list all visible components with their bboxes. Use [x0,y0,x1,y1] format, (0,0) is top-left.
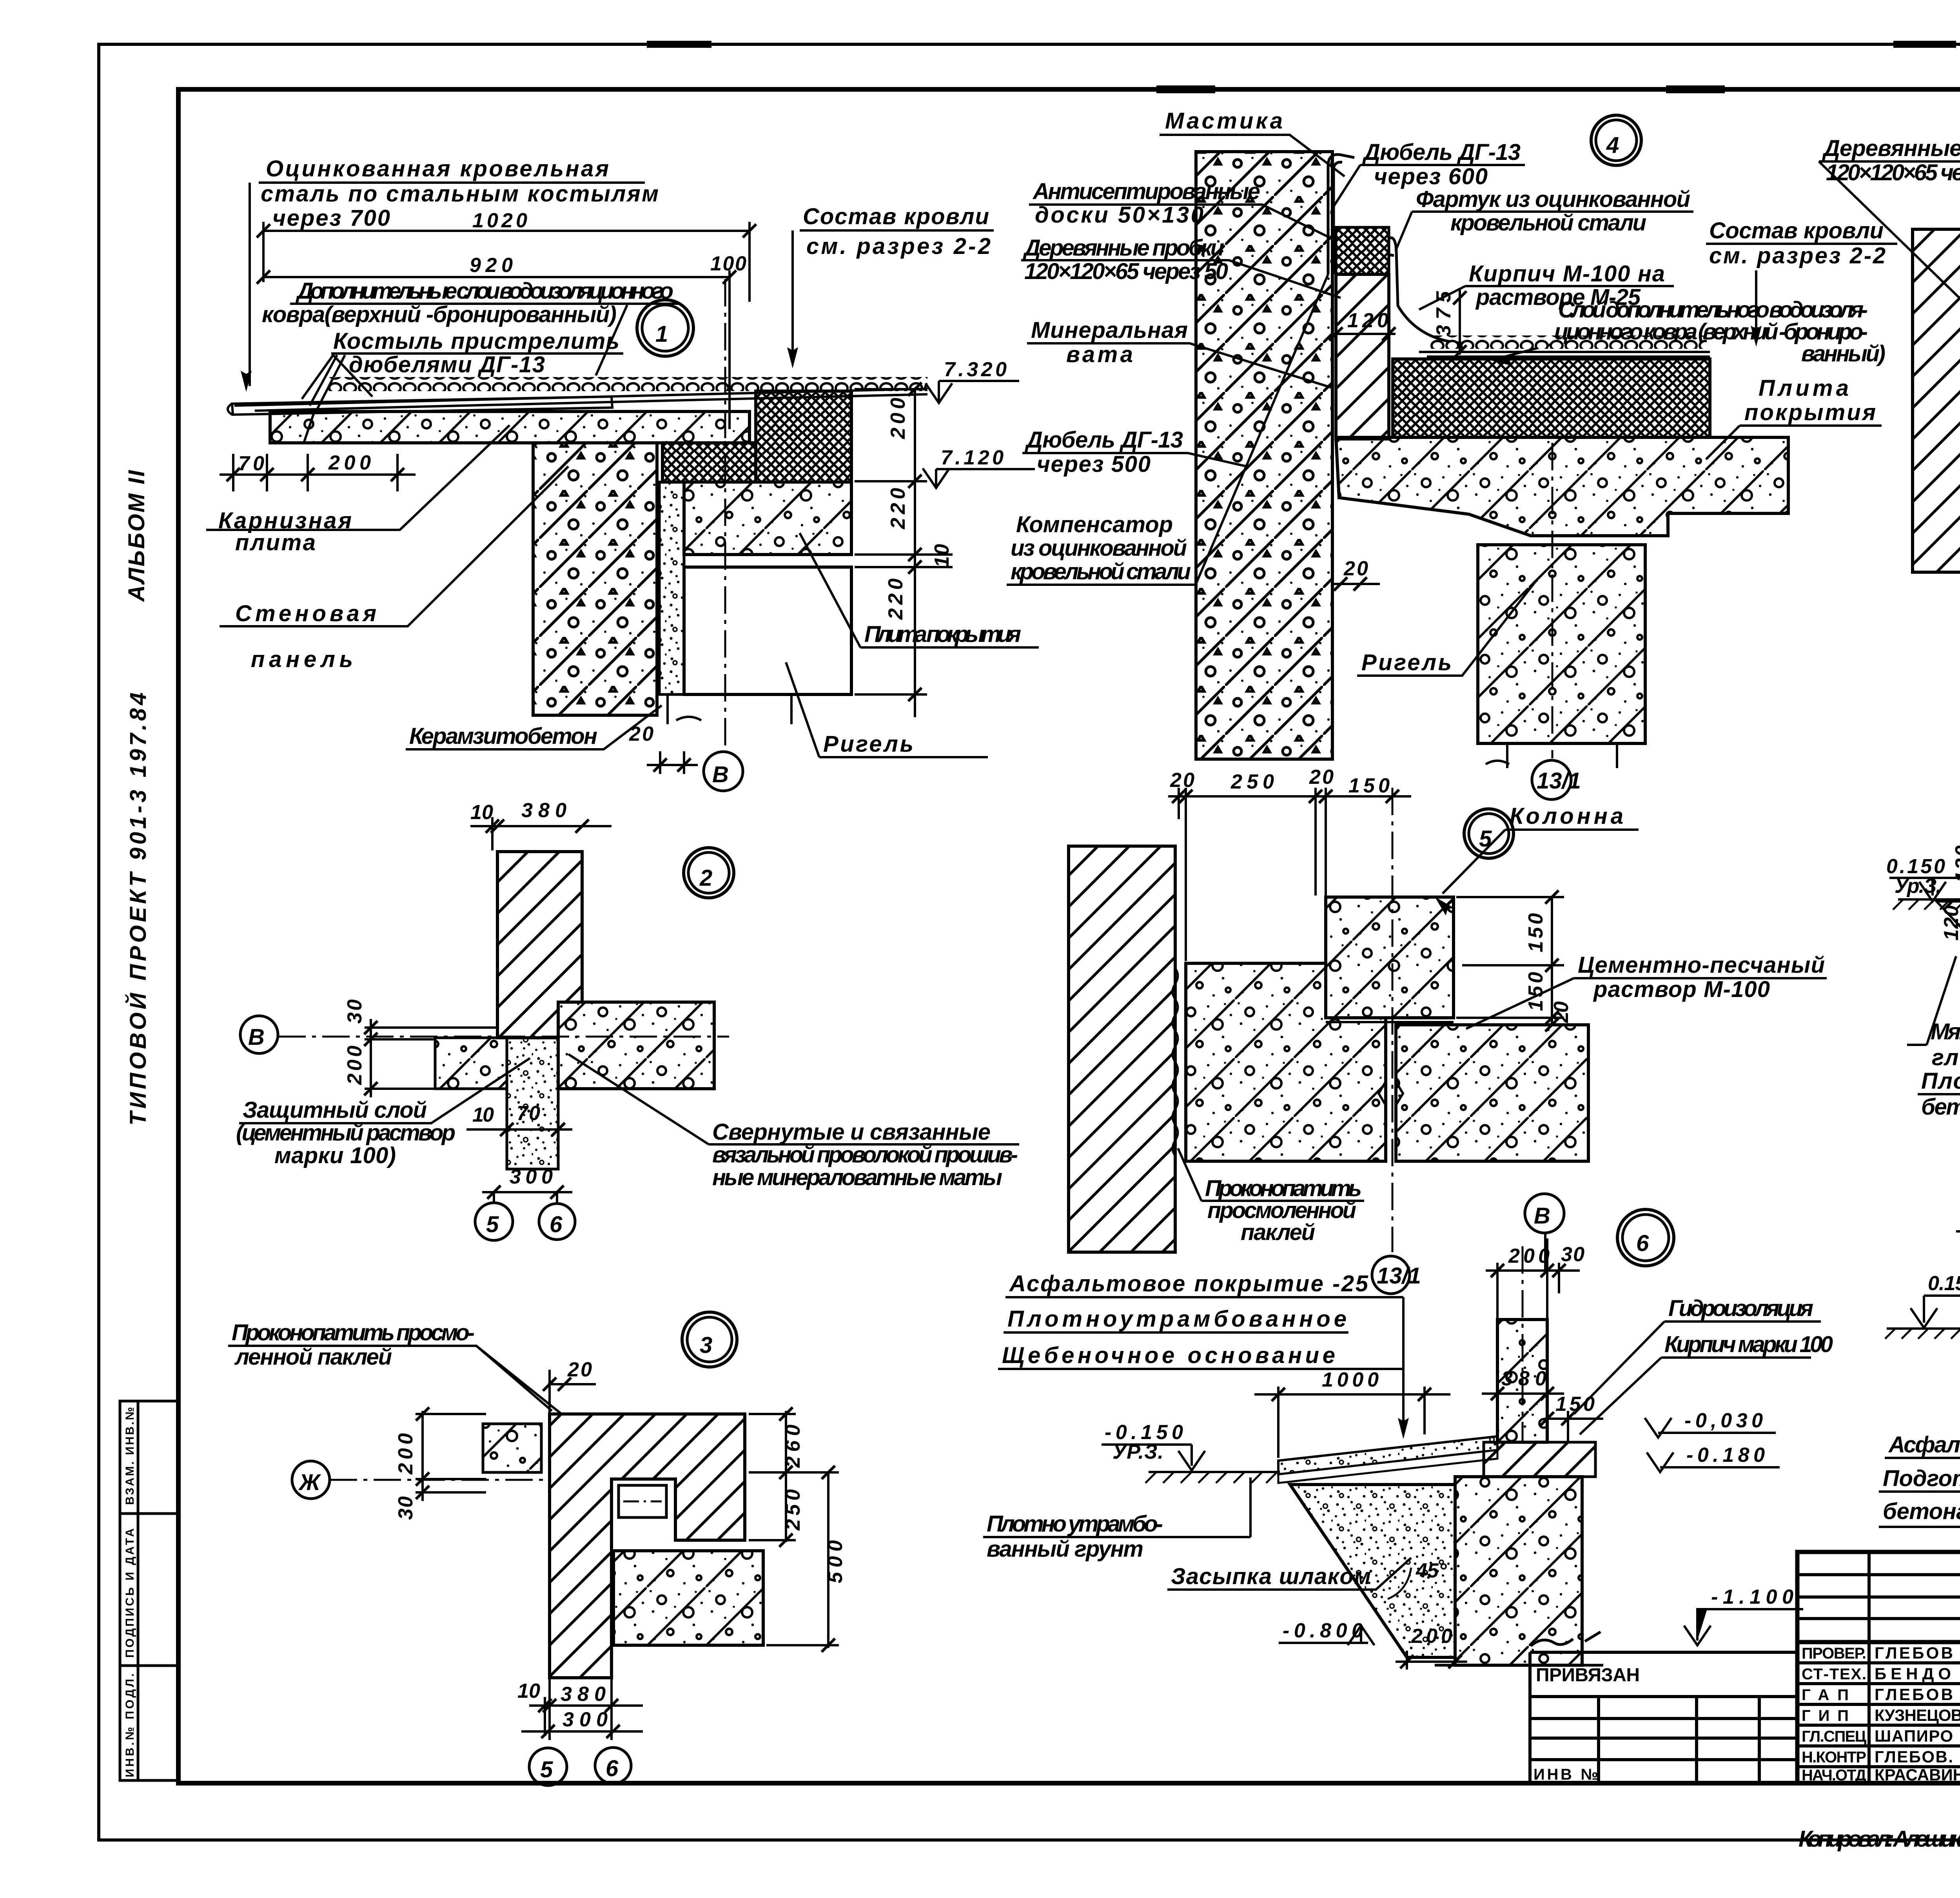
svg-text:через 700: через 700 [272,205,390,231]
detail number 2 [684,848,734,898]
svg-text:200: 200 [1411,1625,1452,1648]
svg-text:120: 120 [1940,905,1960,941]
detail number 1 [637,300,693,356]
svg-text:3: 3 [700,1332,712,1358]
wall axis d6 [1522,1246,1524,1442]
svg-text:сталь по стальным костылям: сталь по стальным костылям [261,181,659,207]
svg-text:КРАСАВИН: КРАСАВИН [1875,1766,1960,1784]
svg-text:220: 220 [887,488,909,529]
svg-text:150: 150 [1524,913,1547,952]
clay wedge [1936,901,1960,974]
title block texts [1802,1574,1960,1785]
svg-text:Плита покрытия: Плита покрытия [864,622,1021,647]
svg-text:10: 10 [472,1104,494,1126]
svg-text:Засыпка шлаком: Засыпка шлаком [1171,1564,1371,1589]
svg-text:6: 6 [550,1212,563,1237]
svg-text:Стеновая: Стеновая [235,601,376,626]
svg-text:ванный): ванный) [1801,341,1886,366]
svg-text:ГЛЕБОВ: ГЛЕБОВ [1875,1685,1953,1704]
svg-text:Костыль пристрелить: Костыль пристрелить [333,328,619,354]
detail number 3 [682,1312,737,1367]
wooden plug cross block [1336,227,1389,274]
svg-text:вязальной проволокой прошив-: вязальной проволокой прошив- [712,1142,1018,1167]
svg-text:0.150 У.З.: 0.150 У.З. [1928,1272,1960,1295]
svg-text:13/1: 13/1 [1377,1263,1421,1289]
horizontal centerline [278,1036,729,1038]
svg-text:плита: плита [235,530,316,555]
svg-text:260: 260 [782,1425,804,1468]
column axis d5 [1392,788,1394,1252]
left slab d5 [1186,963,1386,1161]
right slab d5 [1396,1025,1588,1161]
svg-text:380: 380 [1501,1367,1546,1390]
foundation trapezoid d6 [1290,1485,1455,1657]
svg-text:200: 200 [887,398,909,439]
svg-text:ТИПОВОЙ ПРОЕКТ 901-3 197.84: ТИПОВОЙ ПРОЕКТ 901-3 197.84 [125,692,151,1126]
svg-text:Компенсатор: Компенсатор [1016,512,1173,537]
rigel support legs [1486,743,1617,768]
svg-text:Колонна: Колонна [1510,803,1623,829]
axis circle 5 d3 [529,1748,567,1786]
svg-text:100: 100 [710,252,746,275]
svg-text:Состав кровли: Состав кровли [803,204,989,229]
svg-text:Ж: Ж [298,1470,321,1495]
svg-text:130: 130 [1951,845,1960,883]
brick pier d6 [1497,1320,1547,1442]
insulation cross-hatch band [662,443,756,482]
svg-text:Деревянные пробки: Деревянные пробки [1822,136,1960,161]
svg-text:из оцинкованной: из оцинкованной [1011,535,1187,561]
column d5 [1326,897,1454,1018]
support ticks under rigel [668,694,791,724]
right slab [558,1002,714,1089]
svg-text:Площадка из: Площадка из [1921,1068,1960,1094]
svg-text:Асфальт-30: Асфальт-30 [1888,1432,1960,1457]
roofing sheet lines [234,389,927,411]
left small slab [483,1424,541,1472]
roof slab plita pokrytiya [684,482,851,555]
svg-text:5: 5 [1479,826,1492,852]
gravel row [328,377,927,391]
rubble base band [1278,1450,1497,1483]
right dim column [855,389,953,717]
dim 30/200 left [365,1019,498,1097]
svg-text:ковра(верхний -бронированный): ковра(верхний -бронированный) [262,302,617,327]
pad under pier [1484,1442,1595,1477]
svg-text:раствор М-100: раствор М-100 [1593,977,1770,1002]
detail number 6 header [1617,1209,1674,1266]
svg-text:1: 1 [655,321,668,347]
svg-text:200: 200 [343,1046,366,1085]
wall panel keramzit [533,443,657,715]
svg-text:ГАП: ГАП [1802,1686,1849,1704]
svg-text:см. разрез 2-2: см. разрез 2-2 [1709,243,1886,268]
svg-text:НАЧ.ОТД: НАЧ.ОТД [1802,1767,1866,1784]
right dims 260 250 500 [749,1411,839,1648]
gravel row d4 [1430,335,1707,349]
svg-text:200: 200 [394,1433,417,1475]
svg-text:Плотно утрамбо-: Плотно утрамбо- [987,1511,1163,1537]
axis circle V d5 [1525,1194,1564,1233]
axis circle 13/1 [1532,760,1571,799]
dimension 70 / 200 bottom left [220,454,416,491]
roof slab polygon [1336,437,1788,536]
svg-text:200: 200 [1508,1245,1550,1267]
joint column below [507,1038,558,1169]
svg-text:5: 5 [486,1212,499,1237]
svg-text:кровельной стали: кровельной стали [1011,559,1191,584]
svg-text:вата: вата [1066,342,1133,367]
insulation cross-hatch band [1393,359,1710,437]
svg-text:СТ-ТЕХ.: СТ-ТЕХ. [1802,1666,1866,1683]
svg-text:ные минераловатные маты: ные минераловатные маты [712,1165,1002,1190]
svg-text:Керамзитобетон: Керамзитобетон [409,723,597,749]
svg-text:Асфальтовое покрытие -25: Асфальтовое покрытие -25 [1009,1271,1368,1296]
right foundation wall d6 [1455,1477,1582,1665]
brick parapet column [1336,274,1389,439]
wall panel keramzit [1196,152,1332,759]
svg-text:220: 220 [884,578,907,620]
bottom edge d6 [1435,1664,1603,1667]
svg-text:Свернутые и связанные: Свернутые и связанные [712,1119,991,1145]
svg-text:марки 100): марки 100) [274,1143,396,1168]
svg-text:В: В [1534,1203,1550,1229]
joint column [659,482,684,694]
svg-text:бетона марки 100: бетона марки 100 [1883,1499,1960,1524]
ground hachure d9 [1887,1327,1960,1330]
svg-text:Защитный слой: Защитный слой [243,1097,427,1123]
svg-text:13/1: 13/1 [1537,768,1581,794]
svg-text:500: 500 [824,1540,847,1583]
left wall d5 [1069,846,1175,1252]
svg-text:Минеральная: Минеральная [1031,317,1188,343]
svg-text:Проконопатить просмо-: Проконопатить просмо- [232,1320,475,1345]
svg-text:Мастика: Мастика [1165,108,1283,134]
axis circle 13/1 d5 [1372,1256,1410,1294]
svg-text:2: 2 [699,865,712,891]
title block [1797,1552,1960,1783]
svg-text:через 500: через 500 [1037,451,1151,477]
svg-text:АЛЬБОМ II: АЛЬБОМ II [124,470,149,602]
svg-text:через 600: через 600 [1374,164,1488,189]
concrete block d3 [613,1551,763,1645]
axis circle V [240,1016,278,1053]
svg-text:300: 300 [510,1166,553,1188]
axis circle 5 d2 [475,1203,513,1240]
svg-text:ПРИВЯЗАН: ПРИВЯЗАН [1536,1665,1640,1686]
svg-text:Оцинкованная кровельная: Оцинкованная кровельная [266,156,609,181]
svg-text:бетона марки 100: бетона марки 100 [1921,1094,1960,1120]
svg-text:ИНВ №: ИНВ № [1534,1766,1598,1783]
axis line B [724,279,726,749]
wall vertical d2 [497,852,582,1038]
svg-text:кровельной стали: кровельной стали [1450,210,1646,236]
svg-text:375: 375 [1432,291,1455,336]
caulking squiggle strip [1172,968,1178,1156]
svg-text:7.320: 7.320 [944,358,1007,381]
L-shaped wall d3 [550,1414,745,1678]
axis circle 6 d2 [539,1204,575,1240]
svg-text:БЕНДО: БЕНДО [1875,1664,1951,1683]
svg-text:КУЗНЕЦОВ: КУЗНЕЦОВ [1875,1706,1960,1724]
svg-text:Копировал: Алешикова: Копировал: Алешикова [1798,1826,1960,1852]
svg-text:20: 20 [1550,1001,1573,1023]
svg-text:10: 10 [517,1680,540,1702]
svg-text:ГЛ.СПЕЦ: ГЛ.СПЕЦ [1802,1728,1866,1745]
dim 10/380 top [470,817,612,850]
ground line and hachures [1898,898,1960,901]
mastic cap and compensator sheet [1328,154,1354,274]
svg-text:120×120×65 через 780 мм: 120×120×65 через 780 мм [1826,160,1960,185]
svg-text:Фартук из оцинкованной: Фартук из оцинкованной [1416,187,1690,212]
detail number 4 [1591,115,1641,165]
apron sheet profile [1389,238,1474,345]
svg-text:7.120: 7.120 [941,446,1004,469]
column axis [1552,443,1553,758]
leader arrow to roof (sostav krovli) [1755,270,1757,341]
svg-text:920: 920 [470,254,513,277]
svg-text:ленной паклей: ленной паклей [234,1344,392,1370]
svg-text:Дополнительные слои водоизоляц: Дополнительные слои водоизоляционного [295,278,673,304]
dimension 920 [263,270,730,429]
dimension 1020 [263,222,750,302]
left slab piece [435,1038,507,1089]
svg-text:150: 150 [1555,1393,1595,1416]
anchor box in notch [619,1485,666,1517]
keyed joint [1379,1082,1403,1105]
svg-text:Н.КОНТР: Н.КОНТР [1802,1749,1866,1766]
left dims 200 30 [416,1411,486,1501]
mortar joint under column [1326,1021,1454,1023]
svg-text:Кирпич М-100 на: Кирпич М-100 на [1469,261,1665,286]
svg-text:300: 300 [563,1708,608,1731]
svg-text:Дюбель ДГ-13: Дюбель ДГ-13 [1362,140,1521,165]
svg-text:6: 6 [1636,1231,1649,1256]
svg-text:Гидроизоляция: Гидроизоляция [1668,1296,1813,1321]
right dims 150 150 20 [1456,897,1564,1025]
svg-text:45°: 45° [1416,1559,1447,1582]
svg-text:250: 250 [1230,770,1274,793]
asphalt sloped band [1278,1436,1497,1474]
svg-text:доски 50×130: доски 50×130 [1035,202,1203,228]
svg-text:10: 10 [470,801,493,824]
svg-text:Цементно-песчаный: Цементно-песчаный [1578,952,1825,978]
svg-text:ванный грунт: ванный грунт [987,1536,1143,1562]
svg-text:дюбелями ДГ-13: дюбелями ДГ-13 [349,352,545,377]
privyazan box [1530,1652,1797,1783]
rigel block [1478,545,1645,743]
rigel outline [684,567,851,694]
svg-text:5: 5 [540,1757,553,1782]
roof membrane lines [1419,352,1710,357]
svg-text:4: 4 [1606,132,1619,158]
top dims 20 250 20 150 [1168,788,1411,961]
svg-text:ГИП: ГИП [1802,1707,1849,1724]
axis circle B [704,752,743,791]
svg-text:глина: глина [1932,1045,1960,1070]
svg-text:380: 380 [561,1683,606,1706]
ground line d6 [1149,1471,1280,1473]
svg-text:В: В [248,1024,265,1050]
detail number 5 header [1464,809,1514,858]
svg-text:ГЛЕБОВ: ГЛЕБОВ [1875,1644,1953,1662]
parapet cross-hatch block [756,391,851,482]
svg-text:6: 6 [606,1756,619,1781]
svg-text:Плотноутрамбованное: Плотноутрамбованное [1007,1306,1347,1332]
axis circle 6 d3 [595,1748,631,1784]
svg-text:Состав кровли: Состав кровли [1709,218,1884,243]
svg-text:Кирпич марки 100: Кирпич марки 100 [1664,1332,1833,1357]
svg-text:В: В [712,762,729,787]
svg-text:250: 250 [782,1489,804,1531]
svg-text:150: 150 [1348,774,1390,797]
left margin column: inv table strip [120,1401,178,1780]
svg-text:120: 120 [1347,309,1388,332]
leader to steel spike [249,183,251,386]
wall brick d7 [1913,229,1960,572]
small signature above box [1531,1632,1601,1646]
svg-text:Подготовка из: Подготовка из [1883,1466,1960,1491]
svg-text:ПРОВЕР.: ПРОВЕР. [1802,1645,1866,1662]
svg-text:покрытия: покрытия [1744,400,1876,425]
svg-text:ШАПИРО: ШАПИРО [1875,1727,1953,1745]
svg-text:Деревянные пробки: Деревянные пробки [1022,235,1224,261]
axis circle Zh [292,1461,330,1499]
cornice slab (concrete band) [270,412,750,443]
svg-text:см. разрез 2-2: см. разрез 2-2 [806,234,991,259]
svg-text:ГЛЕБОВ.: ГЛЕБОВ. [1875,1748,1953,1766]
svg-text:200: 200 [328,451,371,474]
steel spike rod [232,397,612,415]
svg-text:380: 380 [521,799,566,822]
svg-text:Дюбель ДГ-13: Дюбель ДГ-13 [1024,427,1183,453]
svg-text:паклей: паклей [1241,1220,1315,1245]
